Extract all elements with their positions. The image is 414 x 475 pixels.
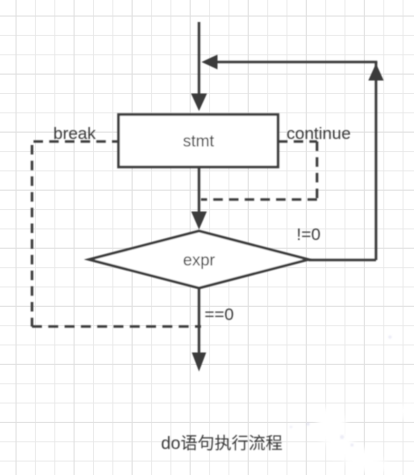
arrowhead: stmt-to-expr down arrow	[191, 212, 207, 230]
svg-text:expr: expr	[183, 252, 216, 270]
svg-text:stmt: stmt	[183, 133, 215, 151]
watermark remnant blob bottom-right	[316, 403, 414, 474]
wire: break dashed horizontal from stmt	[32, 140, 119, 143]
arrowhead: exit down arrow	[192, 353, 206, 372]
wire: expr right vertex to loop corner	[309, 259, 377, 262]
wire: loop-back right vertical	[375, 62, 378, 260]
svg-text:do: do	[161, 433, 180, 453]
svg-text:continue: continue	[287, 124, 351, 143]
wire: loop-back top horizontal	[216, 61, 377, 64]
arrowhead: loop-back left arrow	[202, 55, 218, 70]
wire: break dashed bottom horizontal	[32, 325, 201, 328]
decision diamond expr	[89, 231, 309, 288]
process box stmt	[119, 115, 279, 168]
svg-text:break: break	[53, 124, 96, 143]
wire: break dashed vertical	[31, 145, 34, 327]
arrowhead: loop-back up arrow	[368, 64, 383, 81]
wire: continue dashed vertical	[316, 142, 319, 200]
wire: continue dashed horizontal from stmt	[278, 140, 317, 143]
wire: expr exit down	[198, 288, 201, 354]
svg-text:==0: ==0	[205, 305, 234, 324]
wire: stmt to expr	[198, 167, 201, 214]
wire: continue dashed horizontal to stmt-expr wire	[201, 198, 317, 201]
arrowhead: entry down arrow	[191, 94, 207, 112]
svg-text:!=0: !=0	[297, 225, 321, 244]
wire: entry line into stmt	[198, 22, 201, 95]
